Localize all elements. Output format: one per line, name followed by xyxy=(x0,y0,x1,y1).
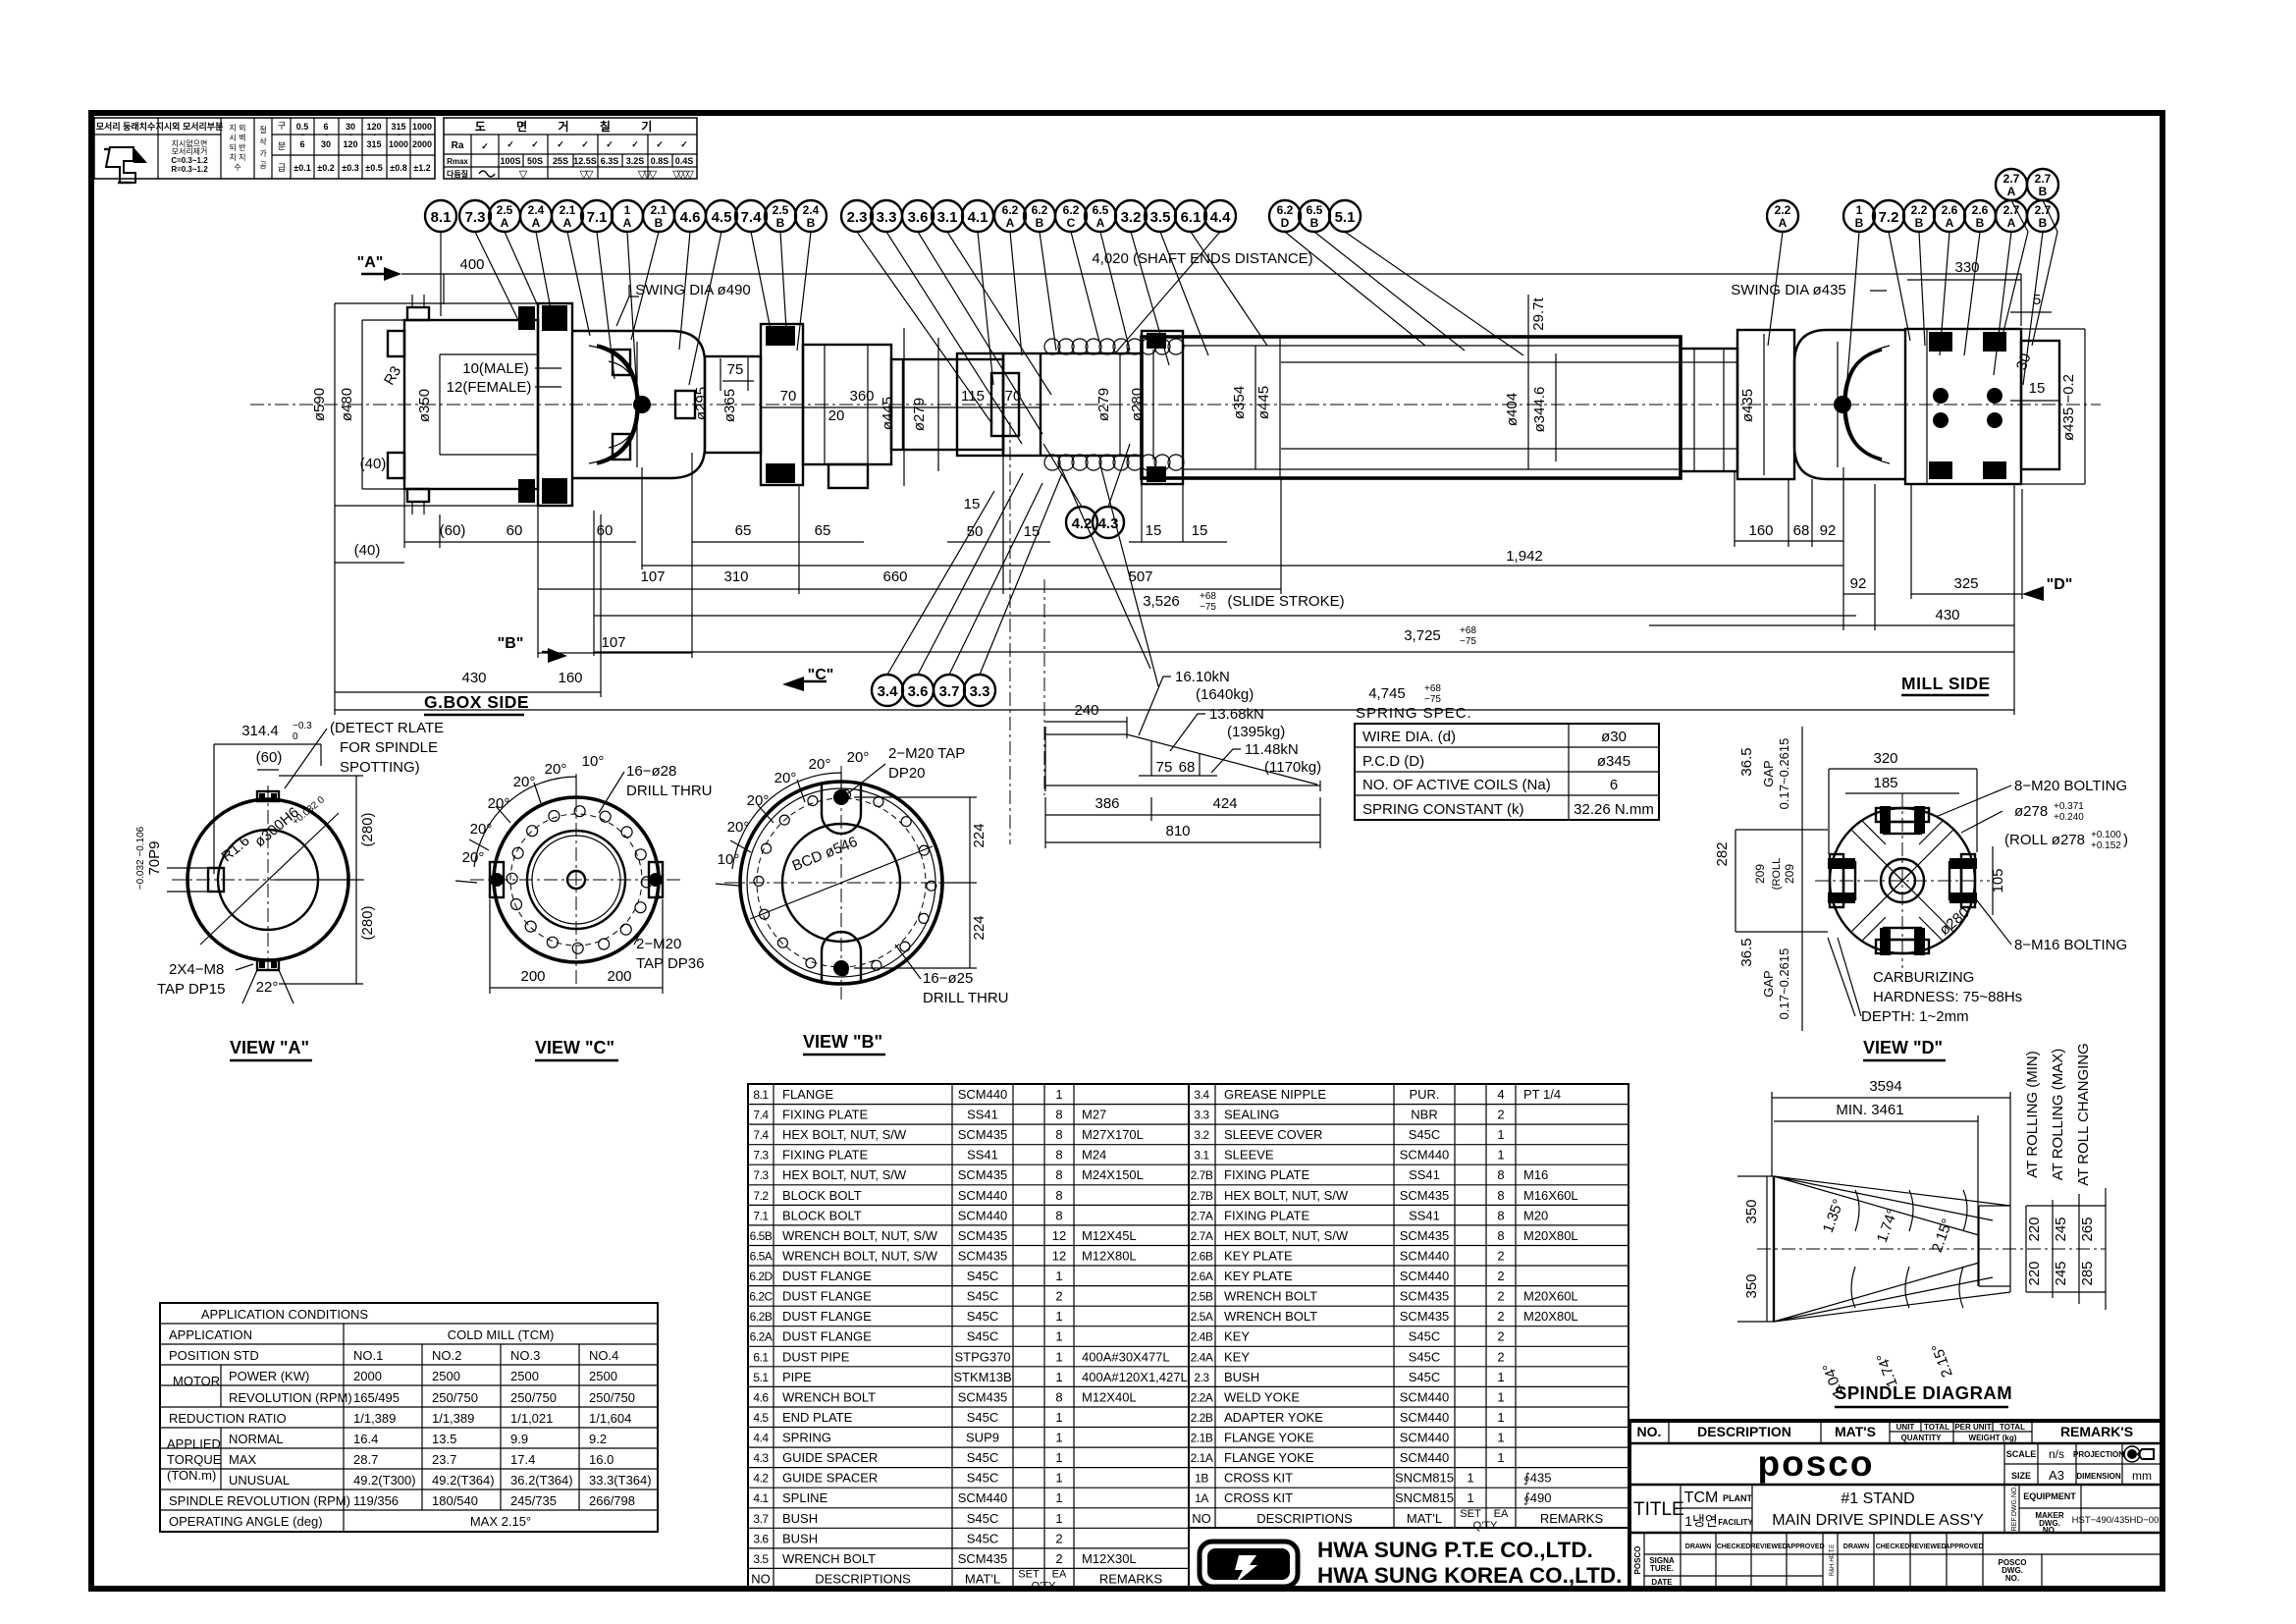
svg-text:160: 160 xyxy=(558,670,582,686)
svg-text:2500: 2500 xyxy=(589,1369,617,1383)
svg-text:SWING DIA ø490: SWING DIA ø490 xyxy=(635,282,751,298)
svg-text:2.7: 2.7 xyxy=(2003,203,2020,217)
svg-text:60: 60 xyxy=(597,522,614,539)
svg-text:B: B xyxy=(1976,216,1985,230)
svg-text:COLD MILL (TCM): COLD MILL (TCM) xyxy=(448,1327,555,1342)
svg-text:20°: 20° xyxy=(545,761,567,778)
svg-text:SPRING: SPRING xyxy=(782,1431,831,1445)
svg-text:310: 310 xyxy=(723,568,748,585)
svg-text:M20X80L: M20X80L xyxy=(1523,1228,1578,1243)
BCD diagonal xyxy=(750,846,933,919)
ø590 plate xyxy=(538,303,572,506)
svg-text:7.3: 7.3 xyxy=(465,209,486,226)
svg-text:2: 2 xyxy=(1055,1531,1062,1545)
svg-text:16−ø25: 16−ø25 xyxy=(923,970,973,987)
svg-text:8.1: 8.1 xyxy=(431,209,452,226)
svg-text:2.2B: 2.2B xyxy=(1191,1411,1213,1425)
svg-text:6.2C: 6.2C xyxy=(749,1290,773,1304)
svg-text:PUR.: PUR. xyxy=(1409,1087,1439,1102)
svg-text:65: 65 xyxy=(735,522,752,539)
svg-text:−75: −75 xyxy=(1200,602,1216,613)
svg-text:2: 2 xyxy=(1055,1289,1062,1304)
svg-text:507: 507 xyxy=(1128,568,1152,585)
svg-text:6.2: 6.2 xyxy=(1063,203,1080,217)
balloon circles row xyxy=(425,169,2058,706)
svg-text:MAX 2.15°: MAX 2.15° xyxy=(470,1514,531,1529)
svg-text:HARDNESS: 75~88Hs: HARDNESS: 75~88Hs xyxy=(1873,989,2022,1005)
svg-text:REF.DWG.NO.: REF.DWG.NO. xyxy=(2011,1486,2018,1532)
svg-text:B: B xyxy=(1036,216,1044,230)
svg-text:TAP DP36: TAP DP36 xyxy=(636,955,704,972)
svg-text:~: ~ xyxy=(348,133,352,139)
svg-text:HEX BOLT, NUT, S/W: HEX BOLT, NUT, S/W xyxy=(1224,1228,1349,1243)
svg-text:3.2S: 3.2S xyxy=(626,156,645,166)
svg-text:SCM435: SCM435 xyxy=(958,1551,1008,1566)
svg-text:2: 2 xyxy=(1497,1249,1504,1264)
svg-text:2: 2 xyxy=(1497,1309,1504,1324)
svg-text:DRAWN: DRAWN xyxy=(1685,1543,1711,1550)
svg-text:POSCO: POSCO xyxy=(1633,1546,1642,1575)
svg-text:1: 1 xyxy=(1856,203,1863,217)
svg-text:BUSH: BUSH xyxy=(782,1511,818,1526)
svg-text:P.C.D (D): P.C.D (D) xyxy=(1362,753,1424,770)
svg-text:±0.2: ±0.2 xyxy=(317,163,334,173)
big pipe 5.1 xyxy=(1142,337,1681,478)
svg-text:2−M20: 2−M20 xyxy=(636,936,681,952)
svg-text:구: 구 xyxy=(278,121,286,131)
svg-text:2.3: 2.3 xyxy=(1194,1371,1209,1384)
svg-text:(280): (280) xyxy=(359,812,376,846)
svg-text:NO.1: NO.1 xyxy=(353,1348,383,1363)
svg-text:SPINDLE REVOLUTION (RPM): SPINDLE REVOLUTION (RPM) xyxy=(169,1493,350,1508)
svg-text:MAT'S: MAT'S xyxy=(1835,1424,1876,1439)
svg-text:315: 315 xyxy=(366,139,381,149)
svg-text:WRENCH BOLT, NUT, S/W: WRENCH BOLT, NUT, S/W xyxy=(782,1228,938,1243)
svg-text:POSITION STD: POSITION STD xyxy=(169,1348,259,1363)
svg-text:ø280: ø280 xyxy=(1129,388,1146,421)
svg-text:3,526: 3,526 xyxy=(1143,593,1180,610)
yoke mill 2.1? xyxy=(1794,330,1905,479)
svg-text:~: ~ xyxy=(300,133,304,139)
svg-text:250/750: 250/750 xyxy=(432,1390,478,1405)
svg-text:6.1: 6.1 xyxy=(1181,209,1201,226)
svg-text:224: 224 xyxy=(971,823,988,847)
svg-text:SLEEVE COVER: SLEEVE COVER xyxy=(1224,1127,1322,1142)
svg-text:350: 350 xyxy=(1743,1273,1760,1298)
svg-text:DRILL THRU: DRILL THRU xyxy=(923,990,1009,1006)
svg-text:1: 1 xyxy=(1055,1329,1062,1344)
svg-text:S45C: S45C xyxy=(1409,1127,1441,1142)
svg-text:15: 15 xyxy=(2029,380,2046,397)
svg-text:SPLINE: SPLINE xyxy=(782,1490,828,1505)
svg-text:100S: 100S xyxy=(500,156,520,166)
svg-text:SPRING SPEC.: SPRING SPEC. xyxy=(1356,705,1472,722)
svg-text:3.1: 3.1 xyxy=(1194,1149,1209,1163)
svg-text:6: 6 xyxy=(323,122,328,132)
right small end xyxy=(2021,341,2059,469)
svg-text:SCALE: SCALE xyxy=(2006,1449,2037,1459)
balloon leader lines xyxy=(441,200,2057,675)
svg-text:APPROVED: APPROVED xyxy=(1945,1543,1983,1550)
svg-text:DUST FLANGE: DUST FLANGE xyxy=(782,1329,872,1344)
svg-text:✓: ✓ xyxy=(631,139,639,149)
svg-text:DUST FLANGE: DUST FLANGE xyxy=(782,1289,872,1304)
svg-text:A: A xyxy=(532,216,541,230)
vertical diameter dims left xyxy=(334,303,336,506)
svg-text:1/1,389: 1/1,389 xyxy=(353,1411,396,1426)
svg-text:C=0.3~1.2: C=0.3~1.2 xyxy=(171,156,208,165)
svg-text:70P9: 70P9 xyxy=(146,840,163,875)
row 107 310 660 507 1,942 xyxy=(538,588,1281,590)
svg-text:STPG370: STPG370 xyxy=(954,1349,1010,1364)
svg-text:(1170kg): (1170kg) xyxy=(1264,759,1321,776)
svg-text:posco: posco xyxy=(1758,1443,1875,1484)
yoke G.box 2.1A xyxy=(572,331,705,478)
svg-text:DRILL THRU: DRILL THRU xyxy=(626,783,713,799)
svg-text:0.4S: 0.4S xyxy=(675,156,694,166)
svg-text:HEX BOLT, NUT, S/W: HEX BOLT, NUT, S/W xyxy=(1224,1188,1349,1203)
svg-text:DP20: DP20 xyxy=(888,765,926,782)
svg-text:HST−490/435HD−00: HST−490/435HD−00 xyxy=(2072,1515,2160,1526)
svg-text:Q'TY: Q'TY xyxy=(1473,1520,1498,1532)
svg-text:ø295: ø295 xyxy=(693,387,710,420)
svg-text:220: 220 xyxy=(2026,1261,2043,1285)
svg-text:+68: +68 xyxy=(1200,591,1216,602)
svg-text:10°: 10° xyxy=(718,851,740,868)
svg-text:~: ~ xyxy=(397,133,400,139)
svg-text:ø278: ø278 xyxy=(2014,803,2048,820)
svg-text:SCM440: SCM440 xyxy=(958,1208,1008,1222)
svg-text:FIXING PLATE: FIXING PLATE xyxy=(1224,1167,1309,1182)
svg-text:REVOLUTION (RPM): REVOLUTION (RPM) xyxy=(229,1390,352,1405)
svg-text:SCM435: SCM435 xyxy=(958,1167,1008,1182)
svg-text:APPLICATION CONDITIONS: APPLICATION CONDITIONS xyxy=(201,1307,369,1322)
svg-text:ø279: ø279 xyxy=(911,398,928,431)
svg-text:20°: 20° xyxy=(809,756,831,773)
svg-text:GAP: GAP xyxy=(1761,970,1776,997)
svg-text:3.1: 3.1 xyxy=(937,209,958,226)
svg-text:M12X40L: M12X40L xyxy=(1082,1389,1137,1404)
svg-text:REMARKS: REMARKS xyxy=(1540,1511,1604,1526)
svg-text:M12X80L: M12X80L xyxy=(1082,1249,1137,1264)
svg-text:3.6: 3.6 xyxy=(908,209,929,226)
svg-text:MAT'L: MAT'L xyxy=(1407,1511,1442,1526)
svg-text:8−M20 BOLTING: 8−M20 BOLTING xyxy=(2014,778,2127,794)
svg-text:224: 224 xyxy=(971,915,988,940)
svg-text:6.3S: 6.3S xyxy=(601,156,619,166)
svg-text:NO: NO xyxy=(1192,1511,1211,1526)
svg-text:PER UNIT: PER UNIT xyxy=(1954,1423,1991,1432)
svg-text:3.6: 3.6 xyxy=(908,683,929,700)
3526 row xyxy=(594,615,1856,617)
svg-text:6.1: 6.1 xyxy=(753,1350,769,1364)
angle ticks xyxy=(474,777,576,867)
svg-text:7.2: 7.2 xyxy=(1879,209,1899,226)
svg-text:68: 68 xyxy=(1179,759,1196,776)
svg-text:6.5B: 6.5B xyxy=(750,1229,773,1243)
svg-text:GUIDE SPACER: GUIDE SPACER xyxy=(782,1471,878,1486)
svg-text:320: 320 xyxy=(1873,750,1897,767)
svg-text:8: 8 xyxy=(1055,1389,1062,1404)
svg-text:NO: NO xyxy=(751,1571,771,1586)
svg-text:3.7: 3.7 xyxy=(753,1512,769,1526)
svg-text:M12X30L: M12X30L xyxy=(1082,1551,1137,1566)
svg-text:SIZE: SIZE xyxy=(2011,1471,2031,1481)
svg-text:0.17~0.2615: 0.17~0.2615 xyxy=(1777,948,1791,1020)
svg-text:8: 8 xyxy=(1497,1208,1504,1222)
svg-text:2.2A: 2.2A xyxy=(1191,1390,1213,1404)
svg-text:20°: 20° xyxy=(470,821,493,838)
svg-text:SCM440: SCM440 xyxy=(1400,1410,1450,1425)
svg-text:QUANTITY: QUANTITY xyxy=(1901,1434,1943,1442)
svg-text:92: 92 xyxy=(1850,575,1867,592)
svg-text:PIPE: PIPE xyxy=(782,1370,812,1384)
svg-text:SUP9: SUP9 xyxy=(966,1431,999,1445)
svg-text:BUSH: BUSH xyxy=(1224,1370,1259,1384)
svg-text:(ROLL: (ROLL xyxy=(1771,858,1783,890)
svg-text:30: 30 xyxy=(321,139,331,149)
svg-text:S45C: S45C xyxy=(967,1450,999,1465)
svg-text:1: 1 xyxy=(1497,1389,1504,1404)
svg-text:2: 2 xyxy=(1497,1269,1504,1283)
svg-text:FIXING PLATE: FIXING PLATE xyxy=(782,1108,868,1122)
svg-text:SS41: SS41 xyxy=(967,1108,998,1122)
svg-text:WRENCH BOLT: WRENCH BOLT xyxy=(1224,1309,1317,1324)
svg-text:7.1: 7.1 xyxy=(587,209,608,226)
svg-text:A: A xyxy=(563,216,572,230)
svg-text:325: 325 xyxy=(1953,575,1978,592)
svg-text:200: 200 xyxy=(607,968,631,985)
svg-text:1/1,604: 1/1,604 xyxy=(589,1411,631,1426)
svg-text:3.6: 3.6 xyxy=(753,1532,769,1545)
svg-text:12: 12 xyxy=(1052,1228,1066,1243)
shaft end right xyxy=(1681,349,1737,471)
svg-text:50S: 50S xyxy=(527,156,543,166)
svg-text:+68: +68 xyxy=(1424,683,1441,694)
svg-text:REDUCTION RATIO: REDUCTION RATIO xyxy=(169,1411,287,1426)
svg-text:가: 가 xyxy=(259,149,267,158)
svg-text:FOR SPINDLE: FOR SPINDLE xyxy=(340,739,438,756)
svg-text:−0.3: −0.3 xyxy=(293,721,312,731)
svg-text:M27: M27 xyxy=(1082,1108,1106,1122)
svg-text:0.8S: 0.8S xyxy=(651,156,669,166)
svg-text:7.3: 7.3 xyxy=(753,1168,769,1182)
svg-text:1/1,389: 1/1,389 xyxy=(432,1411,474,1426)
svg-text:3.5: 3.5 xyxy=(1150,209,1171,226)
svg-text:6.2A: 6.2A xyxy=(750,1330,773,1344)
svg-text:(280): (280) xyxy=(359,905,376,940)
svg-text:23.7: 23.7 xyxy=(432,1452,456,1467)
svg-text:65: 65 xyxy=(815,522,831,539)
svg-text:3.3: 3.3 xyxy=(970,683,990,700)
svg-text:4.2: 4.2 xyxy=(753,1472,769,1486)
svg-text:(40): (40) xyxy=(360,456,387,472)
W cap xyxy=(1828,854,1855,907)
svg-text:✓: ✓ xyxy=(531,139,539,149)
svg-text:2: 2 xyxy=(1497,1349,1504,1364)
svg-text:S45C: S45C xyxy=(967,1329,999,1344)
svg-text:360: 360 xyxy=(849,388,874,405)
svg-text:8: 8 xyxy=(1055,1188,1062,1203)
svg-text:68: 68 xyxy=(1793,522,1810,539)
svg-text:✓: ✓ xyxy=(581,139,589,149)
svg-text:2.7: 2.7 xyxy=(2035,172,2052,186)
corner-chamfer symbol xyxy=(106,147,135,183)
svg-text:MAIN DRIVE SPINDLE ASS'Y: MAIN DRIVE SPINDLE ASS'Y xyxy=(1772,1512,1984,1529)
svg-text:2.6A: 2.6A xyxy=(1191,1270,1213,1283)
svg-text:±1.2: ±1.2 xyxy=(413,163,430,173)
svg-text:ø350: ø350 xyxy=(416,389,433,422)
svg-text:EA: EA xyxy=(1052,1568,1067,1580)
svg-text:DESCRIPTIONS: DESCRIPTIONS xyxy=(815,1571,911,1586)
svg-text:M20: M20 xyxy=(1523,1208,1548,1222)
svg-text:mm: mm xyxy=(2132,1469,2152,1483)
svg-text:17.4: 17.4 xyxy=(510,1452,535,1467)
svg-text:STKM13B: STKM13B xyxy=(953,1370,1011,1384)
svg-text:8: 8 xyxy=(1497,1188,1504,1203)
svg-text:12(FEMALE): 12(FEMALE) xyxy=(447,379,532,396)
svg-text:3.5: 3.5 xyxy=(753,1552,769,1566)
svg-text:GREASE NIPPLE: GREASE NIPPLE xyxy=(1224,1087,1326,1102)
svg-text:NO.2: NO.2 xyxy=(432,1348,461,1363)
svg-text:ø445: ø445 xyxy=(1255,386,1272,419)
svg-text:G.BOX SIDE: G.BOX SIDE xyxy=(424,692,529,712)
svg-text:1: 1 xyxy=(1055,1431,1062,1445)
svg-text:"D": "D" xyxy=(2047,576,2073,593)
svg-text:WRENCH BOLT: WRENCH BOLT xyxy=(782,1389,876,1404)
svg-text:SEALING: SEALING xyxy=(1224,1108,1279,1122)
svg-text:▽: ▽ xyxy=(519,169,528,181)
svg-text:S45C: S45C xyxy=(967,1471,999,1486)
svg-text:KEY PLATE: KEY PLATE xyxy=(1224,1269,1293,1283)
svg-text:✓: ✓ xyxy=(507,139,514,149)
svg-text:1: 1 xyxy=(1055,1511,1062,1526)
svg-text:±0.1: ±0.1 xyxy=(294,163,310,173)
svg-text:20°: 20° xyxy=(488,795,510,812)
svg-text:11.48kN: 11.48kN xyxy=(1245,741,1299,758)
svg-text:16−ø28: 16−ø28 xyxy=(626,763,676,780)
svg-text:"B": "B" xyxy=(498,635,524,652)
svg-text:R&H·HP.T.E: R&H·HP.T.E xyxy=(1830,1544,1836,1577)
svg-text:R=0.3~1.2: R=0.3~1.2 xyxy=(171,165,208,174)
svg-text:): ) xyxy=(2123,832,2128,848)
svg-text:SCM435: SCM435 xyxy=(958,1127,1008,1142)
svg-text:36.2(T364): 36.2(T364) xyxy=(510,1473,573,1488)
svg-text:3.2: 3.2 xyxy=(1194,1128,1209,1142)
neck shaft xyxy=(705,356,761,453)
svg-text:ø30: ø30 xyxy=(1601,729,1627,745)
svg-text:400: 400 xyxy=(459,256,484,273)
svg-text:810: 810 xyxy=(1165,823,1190,839)
svg-text:M12X45L: M12X45L xyxy=(1082,1228,1137,1243)
svg-text:EA: EA xyxy=(1494,1508,1509,1520)
svg-text:3.3: 3.3 xyxy=(877,209,897,226)
svg-text:1,942: 1,942 xyxy=(1506,548,1543,565)
svg-text:A: A xyxy=(2007,185,2016,198)
svg-text:(SLIDE STROKE): (SLIDE STROKE) xyxy=(1227,593,1344,610)
svg-text:315: 315 xyxy=(391,122,405,132)
svg-text:M16: M16 xyxy=(1523,1167,1548,1182)
svg-text:FLANGE: FLANGE xyxy=(782,1087,833,1102)
svg-text:13.5: 13.5 xyxy=(432,1432,456,1446)
svg-text:1: 1 xyxy=(1497,1370,1504,1384)
svg-text:2: 2 xyxy=(1055,1551,1062,1566)
svg-text:1: 1 xyxy=(1497,1410,1504,1425)
svg-text:ø354: ø354 xyxy=(1231,386,1248,419)
svg-text:TAP DP15: TAP DP15 xyxy=(157,981,225,998)
svg-text:분: 분 xyxy=(278,141,286,151)
svg-text:Rmax: Rmax xyxy=(447,157,468,166)
svg-text:2.7B: 2.7B xyxy=(1191,1189,1213,1203)
svg-text:NO.: NO. xyxy=(1637,1424,1662,1439)
svg-text:S45C: S45C xyxy=(967,1531,999,1545)
svg-text:B: B xyxy=(2039,185,2048,198)
bolts on flange 7.4 xyxy=(518,306,535,330)
svg-text:✓: ✓ xyxy=(656,139,664,149)
svg-text:DESCRIPTIONS: DESCRIPTIONS xyxy=(1256,1511,1353,1526)
svg-text:#1 STAND: #1 STAND xyxy=(1841,1490,1914,1507)
svg-text:8: 8 xyxy=(1055,1108,1062,1122)
flange 2.1B xyxy=(761,324,803,485)
svg-text:SET: SET xyxy=(1460,1508,1481,1520)
view D cross kit xyxy=(1830,808,1975,953)
svg-text:350: 350 xyxy=(1743,1199,1760,1223)
bottom notch with 22deg xyxy=(257,960,279,970)
svg-text:S45C: S45C xyxy=(1409,1329,1441,1344)
svg-text:8.1: 8.1 xyxy=(753,1088,769,1102)
svg-text:+0.371: +0.371 xyxy=(2054,801,2084,812)
svg-text:2: 2 xyxy=(1497,1108,1504,1122)
svg-text:70: 70 xyxy=(1005,388,1022,405)
spring 4.4 coils xyxy=(1044,339,1184,470)
svg-text:AT ROLLING (MAX): AT ROLLING (MAX) xyxy=(2050,1049,2066,1180)
cross kit 1A xyxy=(633,396,651,413)
svg-text:2.4B: 2.4B xyxy=(1191,1330,1213,1344)
svg-text:SCM435: SCM435 xyxy=(958,1389,1008,1404)
svg-text:1: 1 xyxy=(1055,1410,1062,1425)
svg-text:TOTAL: TOTAL xyxy=(1924,1423,1949,1432)
svg-text:S45C: S45C xyxy=(967,1269,999,1283)
svg-text:2.1: 2.1 xyxy=(560,203,576,217)
centerline xyxy=(250,404,2101,406)
svg-text:(DETECT RLATE: (DETECT RLATE xyxy=(330,720,444,736)
svg-text:ø435: ø435 xyxy=(1739,389,1756,422)
svg-text:4.1: 4.1 xyxy=(968,209,988,226)
svg-text:245: 245 xyxy=(2053,1217,2069,1241)
svg-text:6.5: 6.5 xyxy=(1093,203,1109,217)
roughness table right xyxy=(444,118,697,179)
svg-text:TCM: TCM xyxy=(1684,1489,1719,1506)
svg-text:~: ~ xyxy=(324,133,328,139)
svg-text:FIXING PLATE: FIXING PLATE xyxy=(1224,1208,1309,1222)
svg-text:120: 120 xyxy=(343,139,357,149)
svg-text:6.2: 6.2 xyxy=(1032,203,1048,217)
svg-text:SNCM815: SNCM815 xyxy=(1395,1490,1454,1505)
svg-text:2.5: 2.5 xyxy=(497,203,513,217)
svg-text:4.1: 4.1 xyxy=(753,1491,769,1505)
svg-text:B: B xyxy=(655,216,664,230)
top dim line 400 / 4020 xyxy=(401,273,2021,275)
svg-text:S45C: S45C xyxy=(1409,1349,1441,1364)
left flange block 8.1 xyxy=(404,320,538,489)
view B flange xyxy=(740,782,942,984)
surface-finish legend table xyxy=(94,118,435,179)
svg-text:0: 0 xyxy=(293,731,298,742)
svg-text:SS41: SS41 xyxy=(967,1148,998,1163)
svg-text:지 외: 지 외 xyxy=(230,123,246,133)
svg-text:2.5B: 2.5B xyxy=(1191,1290,1213,1304)
svg-text:REVIEWED: REVIEWED xyxy=(1750,1543,1787,1550)
